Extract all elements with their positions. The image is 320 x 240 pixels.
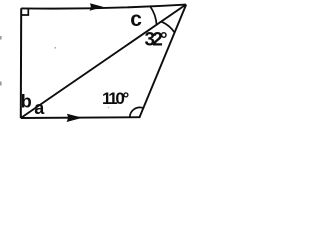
diagonal C-B	[21, 5, 186, 119]
angle arc c at B	[150, 6, 157, 25]
svg-text:110°: 110°	[102, 89, 130, 108]
right-angle mark at A	[22, 9, 29, 16]
right side B-D	[140, 5, 187, 118]
svg-text:32°: 32°	[145, 30, 168, 51]
bottom edge parallel arrow	[67, 114, 83, 122]
svg-text:b: b	[21, 92, 32, 112]
scan artifact dot	[55, 47, 57, 49]
bottom side C-D	[21, 116, 141, 119]
top edge parallel arrow	[90, 3, 104, 11]
top side A-B	[21, 5, 186, 9]
svg-text:a: a	[34, 98, 45, 118]
left side A-C	[20, 8, 22, 118]
angle arc 110 at D	[130, 107, 144, 117]
svg-text:c: c	[130, 8, 142, 31]
angle arc 32 at B	[162, 22, 175, 33]
scan artifact left border mark 1	[0, 36, 2, 40]
scan artifact dot near bottom arrow	[108, 107, 109, 108]
scan artifact left border mark 2	[0, 82, 2, 86]
